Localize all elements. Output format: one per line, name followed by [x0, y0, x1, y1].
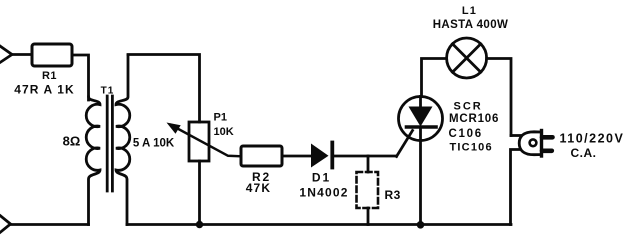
wire R1 to transformer primary — [72, 55, 89, 100]
svg-text:T1: T1 — [101, 86, 115, 97]
svg-text:SCR: SCR — [454, 101, 483, 113]
plug stub bottom and right rail lower — [511, 150, 522, 225]
potentiometer P1 wiper arrow — [171, 125, 241, 156]
svg-text:MCR106: MCR106 — [449, 113, 499, 125]
wire SCR cathode to bottom rail — [419, 141, 422, 225]
resistor R2 — [241, 146, 282, 166]
bottom rail — [127, 223, 511, 226]
plug prong bottom — [542, 149, 552, 154]
svg-text:10K: 10K — [214, 126, 234, 138]
transformer T1 primary winding — [86, 97, 100, 225]
wire R2 to D1 — [282, 155, 311, 158]
junction SCR cathode bottom — [417, 221, 425, 229]
svg-text:C106: C106 — [449, 128, 483, 140]
resistor R3 (dashed, optional) — [357, 172, 379, 208]
plug stub top — [511, 134, 521, 137]
node R3 top junction — [367, 156, 370, 172]
wire D1 to gate — [334, 155, 397, 158]
wire input to R1 — [12, 53, 32, 56]
diode D1 — [311, 144, 329, 168]
svg-text:47K: 47K — [246, 181, 272, 195]
junction P1 bottom — [196, 221, 203, 228]
input terminal arrow top-left — [0, 46, 12, 63]
plug prong top — [542, 135, 553, 140]
svg-text:110/220V: 110/220V — [560, 132, 625, 146]
wire lamp to right rail — [487, 59, 511, 136]
wire P1 bottom lead — [198, 161, 201, 225]
wire secondary top to P1 branch — [128, 55, 200, 123]
svg-text:5 A 10K: 5 A 10K — [133, 138, 175, 150]
SCR U1 (MCR106/C106/TIC106) — [399, 97, 443, 141]
svg-text:47R A 1K: 47R A 1K — [14, 83, 75, 97]
potentiometer P1 body — [189, 122, 209, 161]
svg-text:L1: L1 — [462, 5, 477, 17]
lamp L1 — [447, 38, 487, 78]
wire SCR gate — [397, 131, 413, 157]
svg-text:1N4002: 1N4002 — [299, 186, 348, 200]
AC plug body — [519, 132, 541, 155]
transformer T1 secondary winding — [116, 55, 130, 225]
input terminal arrow bottom-left — [0, 216, 11, 233]
svg-text:HASTA 400W: HASTA 400W — [433, 19, 509, 31]
svg-text:R3: R3 — [385, 188, 401, 202]
svg-text:P1: P1 — [214, 112, 227, 124]
svg-text:D1: D1 — [312, 171, 331, 185]
wire bottom input to primary — [11, 223, 89, 226]
svg-text:8Ω: 8Ω — [63, 134, 81, 149]
svg-text:R1: R1 — [42, 70, 57, 82]
svg-text:TIC106: TIC106 — [450, 142, 493, 154]
wire R3 to bottom rail — [367, 208, 370, 225]
resistor R1 — [32, 44, 72, 66]
svg-text:C.A.: C.A. — [571, 146, 597, 160]
wire SCR anode to lamp — [421, 59, 447, 97]
transformer T1 core — [106, 96, 109, 191]
